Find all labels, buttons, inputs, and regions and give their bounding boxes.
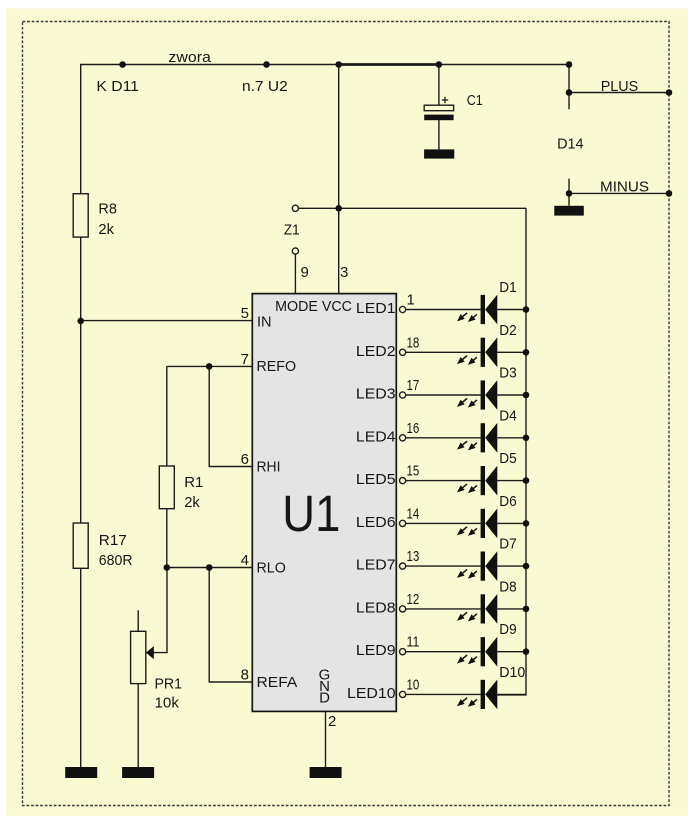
svg-text:D6: D6 [499, 493, 516, 510]
svg-text:LED1: LED1 [356, 300, 396, 317]
svg-text:10k: 10k [155, 695, 180, 712]
svg-text:D1: D1 [499, 279, 516, 296]
svg-text:1: 1 [407, 292, 415, 309]
svg-text:RLO: RLO [257, 560, 286, 577]
jumper Z1 [284, 205, 300, 254]
LED D9 [356, 621, 529, 666]
LED D5 [356, 450, 529, 495]
ground (PR1) [122, 767, 154, 778]
svg-text:LED3: LED3 [356, 386, 396, 403]
svg-text:U1: U1 [282, 486, 340, 543]
svg-text:8: 8 [241, 667, 249, 684]
svg-text:2k: 2k [184, 494, 200, 511]
wire top supply rail thick segment [339, 63, 439, 66]
ground (left branch R17) [65, 767, 97, 778]
LED D7 [356, 536, 529, 581]
svg-text:D2: D2 [499, 322, 516, 339]
LED D10 [347, 664, 526, 709]
svg-text:14: 14 [407, 505, 420, 522]
node n.7 U2 [242, 61, 288, 95]
LED D8 [356, 578, 529, 623]
LED D6 [356, 493, 529, 538]
wire left branch vertical (R8/R17) [80, 64, 82, 767]
svg-text:9: 9 [301, 264, 309, 281]
svg-text:PLUS: PLUS [601, 78, 639, 95]
svg-text:2k: 2k [98, 221, 114, 238]
resistor R8 2k [73, 194, 117, 238]
ground (MINUS) [554, 206, 584, 216]
wire top supply rail left segment [81, 64, 339, 66]
wire REFO-RHI link (pin 6) [209, 366, 252, 466]
svg-text:D3: D3 [499, 365, 516, 382]
svg-text:R1: R1 [184, 474, 203, 491]
svg-text:4: 4 [241, 552, 249, 569]
resistor R17 680R [73, 523, 132, 569]
LED D4 [356, 407, 529, 452]
junction rail right corner [566, 61, 573, 68]
junction C1 rail [436, 61, 443, 68]
wire U1 GND (pin 2) [325, 711, 327, 767]
svg-text:n.7 U2: n.7 U2 [242, 78, 288, 95]
svg-text:K D11: K D11 [96, 78, 138, 95]
wire VCC vertical (pin 3) [338, 65, 340, 294]
svg-text:PR1: PR1 [155, 676, 183, 693]
svg-text:6: 6 [241, 451, 249, 468]
svg-text:MINUS: MINUS [600, 179, 649, 196]
node PLUS [566, 78, 673, 96]
junction IN tap [77, 318, 84, 325]
svg-text:16: 16 [407, 420, 420, 437]
svg-text:REFA: REFA [257, 674, 298, 691]
svg-text:2: 2 [328, 713, 336, 730]
svg-text:D14: D14 [557, 136, 584, 153]
potentiometer PR1 10k [131, 631, 182, 711]
svg-text:LED10: LED10 [347, 685, 396, 702]
svg-text:D8: D8 [499, 578, 516, 595]
svg-text:D5: D5 [499, 450, 516, 467]
svg-text:R8: R8 [98, 201, 117, 218]
LED D1 [356, 279, 529, 324]
svg-text:C1: C1 [467, 92, 483, 109]
wire LED anode feed horizontal [299, 207, 526, 209]
svg-text:680R: 680R [99, 552, 133, 569]
svg-text:D: D [319, 690, 330, 707]
wire R1 leads [166, 366, 168, 567]
svg-text:LED2: LED2 [356, 343, 396, 360]
junction LED feed / VCC cross [335, 205, 342, 212]
ground (U1 pin 2) [310, 767, 342, 778]
svg-text:D9: D9 [499, 621, 516, 638]
svg-text:D4: D4 [499, 407, 516, 424]
svg-text:D7: D7 [499, 536, 516, 553]
ground (C1) [424, 149, 454, 158]
svg-text:zwora: zwora [168, 49, 211, 66]
svg-text:Z1: Z1 [284, 222, 300, 239]
capacitor C1 [424, 92, 483, 120]
svg-text:D10: D10 [499, 664, 525, 681]
junction RLO taps [164, 564, 171, 571]
wire PR1 wiper [153, 568, 167, 653]
wire PR1 top stub [137, 610, 139, 631]
svg-text:MODE VCC: MODE VCC [275, 298, 352, 315]
svg-text:7: 7 [241, 351, 249, 368]
wire C1 leads [438, 65, 440, 150]
svg-text:13: 13 [407, 548, 420, 565]
svg-text:LED4: LED4 [356, 428, 396, 445]
svg-text:3: 3 [340, 264, 348, 281]
wire MINUS branch [569, 179, 669, 206]
junction VCC rail [335, 61, 342, 68]
svg-text:11: 11 [407, 634, 420, 651]
wire PLUS branch [569, 65, 669, 110]
svg-text:15: 15 [407, 463, 420, 480]
svg-text:5: 5 [241, 305, 249, 322]
resistor R1 2k [159, 466, 203, 511]
wire RLO (pin 4) [167, 567, 253, 569]
wire top supply rail right segment [439, 64, 569, 66]
wire REFO (pin 7) [167, 365, 253, 367]
wire Z1 to MODE (pin 9) [294, 254, 296, 293]
svg-text:IN: IN [257, 314, 272, 331]
svg-text:LED9: LED9 [356, 642, 396, 659]
svg-text:LED5: LED5 [356, 471, 396, 488]
op-amp / IC U1 body [252, 294, 396, 712]
junction REFO tap [206, 363, 213, 370]
svg-text:R17: R17 [99, 532, 127, 549]
node K D11 [96, 61, 138, 95]
svg-text:LED7: LED7 [356, 557, 396, 574]
wire IN (pin 5) [81, 320, 253, 322]
wire LED anode bus vertical [497, 208, 526, 695]
wire PR1 bottom lead [137, 684, 139, 767]
svg-text:LED8: LED8 [356, 599, 396, 616]
svg-text:10: 10 [407, 676, 420, 693]
svg-text:18: 18 [407, 334, 420, 351]
wire RLO-REFA link (pin 8) [209, 568, 252, 683]
svg-text:12: 12 [407, 591, 420, 608]
svg-text:RHI: RHI [257, 459, 281, 476]
LED D2 [356, 322, 529, 367]
svg-text:REFO: REFO [257, 358, 297, 375]
svg-text:LED6: LED6 [356, 514, 396, 531]
node MINUS [566, 179, 673, 197]
LED D3 [356, 365, 529, 410]
svg-text:17: 17 [407, 377, 420, 394]
